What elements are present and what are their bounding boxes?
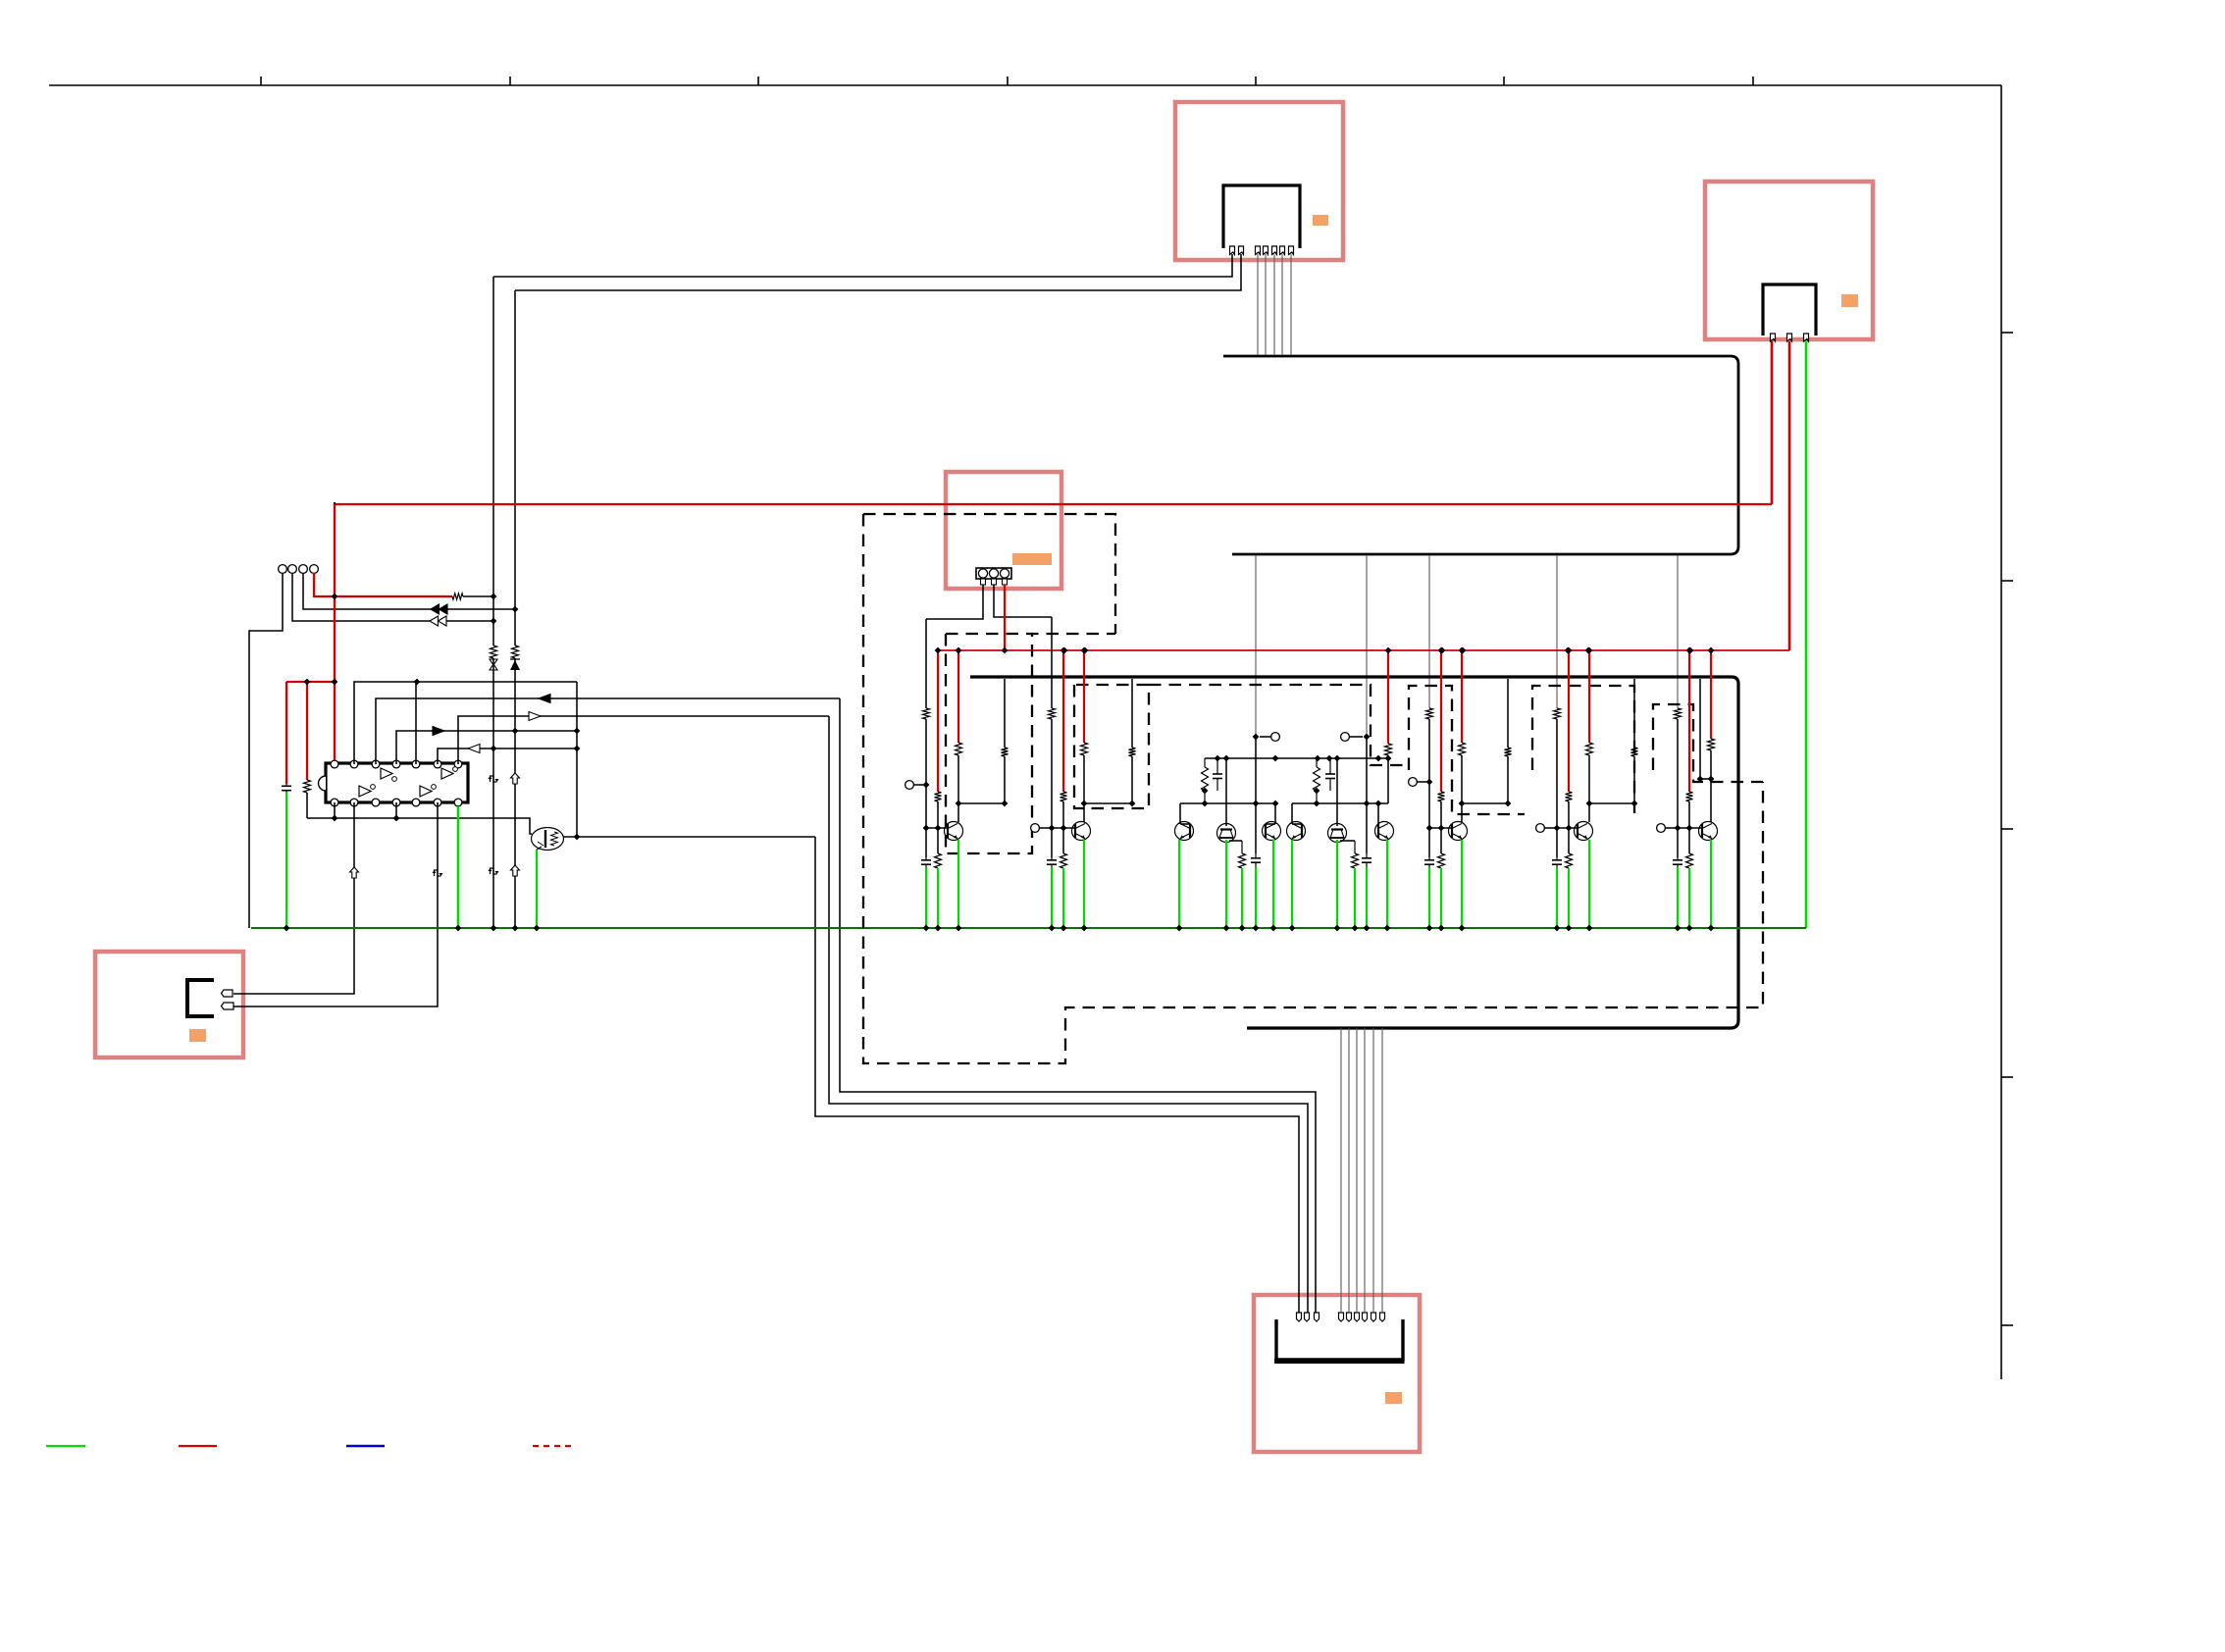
junction mid RC2 [1314,788,1320,795]
ground junction at 1202 [1176,925,1183,932]
resistor R5e [1505,748,1512,756]
junction ch6 node C [1631,800,1638,807]
FET Q12 [532,828,564,851]
legend dashed red wire [533,1445,574,1447]
junction at 525,621 [512,606,519,613]
mid lower stub right [1340,840,1355,842]
capacitor C-mid3 [1255,853,1257,858]
junction ch7 gnd A [1675,925,1682,932]
wire mid A down [1255,737,1257,853]
IC U1 bottom pin 8 [331,799,338,806]
terminal T1 [279,565,287,574]
ground junction at 1381 [1352,925,1359,932]
red wire ch2 B [1062,650,1064,792]
resistor R-mid4 [1239,853,1246,868]
green ground bus [251,927,1806,929]
red junction at 1619,663 [1585,647,1592,654]
ground junction at 292 [284,925,290,932]
red supply horizontal y514 [335,503,1772,505]
wire y712 to nested outer [840,698,1316,1313]
junction ch6 red B [1566,647,1573,654]
wire bus from J1 top edge [1223,356,1738,364]
wire ch7 D to node [1710,750,1712,779]
wire x313 to y834 [306,793,308,818]
wire y834 to FET [307,818,532,834]
connector J1 pin 5 [1272,246,1277,255]
wire ch1 D to node [957,755,959,803]
connector J5 housing [1276,1319,1403,1360]
ground junction at 525 [512,925,519,932]
junction ch5 gnd E [1459,925,1466,932]
IC U1 bottom pin 12 [412,799,420,806]
red drop x313 [306,682,308,780]
capacitor C1 [925,857,927,860]
wire x588 drop [576,682,578,837]
transistor Q6 [1287,822,1306,841]
junction ch1 gnd B [935,925,942,932]
junction mid red [1385,647,1392,654]
red wire ch2 D [1083,650,1085,743]
connector J5 pin 2 [1305,1313,1310,1321]
junction ch5 red B [1438,647,1445,654]
ground junction at 1414 [1384,925,1391,932]
wire Q6 base [1291,803,1293,824]
resistor R2a [1049,708,1056,719]
wire ch1 A mid [925,719,927,857]
collector node ch1 [958,802,1005,804]
resistor R-mid1 [1204,758,1206,767]
junction ch2 gnd A [1049,925,1056,932]
junction at 503,608 [491,594,497,600]
IC U1 bottom pin 14 [454,799,462,806]
wire J1 pin6 drop [1281,254,1283,355]
green Q4 emitter [1225,840,1227,928]
wire drop to ch5 [1428,555,1430,708]
ground junction at 1280 [1253,925,1260,932]
wire J1 pin2 route [515,254,1241,290]
capacitor C-292 [285,784,287,786]
wire T1 to ground bus [249,573,283,928]
terminal T2 [288,565,297,574]
wire ch6 A mid [1556,719,1558,857]
junction at 404,834 [393,815,400,822]
junction at 425,695 [414,679,421,686]
wire drop to ch6 [1556,555,1558,708]
terminal mid right [1341,733,1350,742]
resistor R5d [1459,743,1466,755]
mid lower stub left [1229,840,1242,842]
ground junction at 503 [491,925,497,932]
red wire ch7 D [1710,650,1712,739]
junction ch7 gnd B [1686,925,1693,932]
wire y730 to nested middle [829,716,1308,1313]
wire ch6 collector [1588,803,1590,822]
red junction at 1491,663 [1460,647,1467,654]
IC U1 top pin 1 [331,760,338,768]
wire J3 pin1 [926,585,983,619]
connector J5 pin 4 [1339,1313,1344,1321]
junction ch7 node D [1708,776,1715,783]
border top tick 3 [757,77,759,85]
junction ch5 term [1426,779,1433,786]
junction mid RC1 [1202,788,1209,795]
resistor R2d [1081,743,1088,755]
wire T2 signal [292,573,493,621]
wire ch5 terminal [1417,781,1429,783]
green wire ch5 emitter [1461,840,1463,928]
junction ch2 red B [1061,647,1067,654]
resistor R7a [1675,708,1682,719]
connector box J2 (top right) [1705,181,1873,339]
dashed box A y646 edge [946,633,1115,635]
border top ruler line [49,84,2001,86]
green wire ch1 B [937,868,939,928]
ground junction at 1298 [1270,925,1277,932]
red junction at 1024,663 [1002,647,1009,654]
wire J1 pin5 drop [1273,254,1275,355]
red wire ch5 D [1461,650,1463,743]
border top tick 1 [260,77,262,85]
junction ch6 base A [1554,825,1561,832]
red junction at 1744,663 [1708,647,1715,654]
transistor Q5 [1263,822,1281,841]
IC U1 top pin 2 [350,760,358,768]
junction ch2 base A [1049,825,1056,832]
IC U1 top pin 4 [392,760,400,768]
junction ch1 base A [923,825,930,832]
terminal ch1 [906,781,914,790]
wire ch2 B to base [1062,801,1064,828]
connector box J1 (top middle) [1175,102,1343,260]
wire ch1 base feed [925,619,927,708]
wire Q3 base [1179,803,1181,824]
resistor R5c [1438,853,1445,868]
up-arrow glyph on x361 [350,867,359,878]
resistor R-mid3 [1385,744,1392,755]
junction ch2 node D [1081,800,1088,807]
transistor Q4 [1217,824,1236,843]
IC U1 top pin 3 [372,760,380,768]
ground junction at 1393 [1364,925,1371,932]
wire bus from J1 bottom edge [1232,553,1731,556]
junction ch2 gnd E [1081,925,1088,932]
diode glyph on V503 [490,659,497,665]
green wire ch6 emitter [1588,840,1590,928]
connector J2 pin 3 [1804,334,1809,341]
red wire ch1 D [957,650,959,743]
transistor Q6 [1575,822,1593,841]
green mid R5 [1354,868,1356,928]
wire ch5 D to node [1461,755,1463,803]
resistor R-mid5 [1352,853,1359,868]
label J2 [1841,294,1858,307]
wire ch5 C to node [1507,756,1509,803]
red branch y695 [286,681,335,683]
IC U1 body [326,763,468,802]
green Q7 emitter [1336,840,1338,928]
transistor Q5 [1449,822,1468,841]
label J5 [1385,1392,1402,1404]
junction ch5 gnd A [1426,925,1433,932]
junction ch1 red B [935,647,942,654]
wire ch7 B lower [1688,828,1690,853]
wire ch1 C from bus [1004,679,1006,748]
green mid C3 [1255,867,1257,928]
wire ch6 D to node [1588,755,1590,803]
junction ch2 base B [1061,825,1067,832]
connector J3 housing [976,568,1011,579]
connector box J3 (middle) [946,472,1061,589]
red wire J2 pin2 [1788,341,1791,650]
mid node rail right y819 [1292,802,1388,804]
capacitor C-mid2 [1329,758,1331,774]
connector J2 pin 2 [1787,334,1792,341]
junction ch7 red D [1708,647,1715,654]
wire ch2 A mid [1051,719,1053,857]
border top tick 4 [1007,77,1009,85]
IC U1 bottom pin 9 [350,799,358,806]
red wire ch1 B [937,650,939,792]
wire U1 p7 y730 line [458,716,829,764]
junction ch1 gnd A [923,925,930,932]
connector J4 pin 1 [222,990,233,997]
terminal ch6 [1536,824,1545,833]
green Q3 emitter [1178,840,1180,928]
green wire ch7 A [1677,867,1679,928]
border top tick 5 [1255,77,1257,85]
mid node rail left y819 [1180,802,1275,804]
red wire J2 pin1 [1771,341,1774,504]
pulse glyph on V503 upper [491,776,494,782]
resistor R7d [1708,739,1715,750]
green mid C4 [1366,867,1368,928]
junction mid A feed [1253,734,1260,741]
terminal T3 [299,565,308,574]
collector node ch7 [1700,778,1711,780]
resistor R6e [1631,748,1638,756]
connector J5 pin 8 [1371,1313,1376,1321]
IC U1 bottom pin 10 [372,799,380,806]
wire mid red to rail [1387,755,1389,758]
dashed box A left-bottom [863,514,1763,1063]
red vertical x341 to IC pin1 [334,504,336,764]
wire ch5 collector [1461,803,1463,822]
resistor R-mid2 [1316,758,1318,767]
resistor R6d [1586,743,1593,755]
IC U1 top pin 7 [454,760,462,768]
resistor R-313 [304,780,311,793]
wire ch5 C from bus [1507,679,1509,748]
terminal ch5 [1409,778,1418,787]
junction at 341,608 [332,594,338,600]
connector J5 pin 1 [1297,1313,1302,1321]
transistor Q7 [1699,822,1718,841]
wire ch1 terminal [913,784,926,786]
mid top rail y773 [1205,757,1388,759]
transistor Q8 [1375,822,1394,841]
collector node ch5 [1462,802,1508,804]
resistor R-T4 [452,594,463,599]
IC U1 top pin 6 [434,760,441,768]
resistor R1b [935,792,942,801]
wire J1 pin7 drop [1290,254,1292,355]
green wire ch1 A [925,867,927,928]
IC U1 inverter 1 [381,768,392,779]
border top tick 2 [509,77,511,85]
terminal ch7 [1657,824,1666,833]
wire ch2 terminal [1039,827,1052,829]
junction ch1 node C [1002,800,1009,807]
green Q8 emitter [1386,840,1388,928]
green wire ch5 B [1440,868,1442,928]
wire drop to ch7 [1677,555,1679,708]
junctions on y819 [1202,800,1209,807]
junction ch1 gnd E [956,925,962,932]
wire J1 pin4 drop [1265,254,1267,355]
double hollow arrow on T2 wire [430,616,439,626]
green Q6 emitter [1291,840,1293,928]
resistor on V525 [512,645,519,658]
green mid R4 [1241,868,1243,928]
border right tick 3 [2001,828,2013,830]
resistor R5b [1438,792,1445,801]
wire ch5 B to base [1440,801,1442,828]
connector J5 pin 7 [1363,1313,1368,1321]
junction ch5 base B [1438,825,1445,832]
green wire ch6 B [1568,868,1570,928]
resistor R1d [956,743,962,755]
wire ch7 collector [1710,779,1712,822]
resistor R7b [1686,792,1693,801]
wire U1 p9 to J4 pin1 [233,802,354,994]
connector J1 pin 3 [1256,246,1261,255]
wire ch2 C to node [1131,756,1133,803]
wires bundle to J5 [1340,1028,1342,1313]
wire mid rail ends [1387,758,1389,803]
junction ch6 gnd A [1554,925,1561,932]
connector J1 pin 7 [1289,246,1294,255]
junction ch7 base B [1686,825,1693,832]
junctions on y773 [1215,755,1221,762]
junction ch5 node C [1505,800,1512,807]
wire ch2 C from bus [1131,679,1133,748]
wire J1 pin3 drop [1257,254,1259,355]
wire T4 red feed [314,573,452,596]
wire ch5 B lower [1440,828,1442,853]
connector J5 pin 6 [1355,1313,1360,1321]
connector J1 pin 4 [1264,246,1268,255]
connector J3 pin 1 [981,579,986,585]
transistor Q7 [1328,824,1347,843]
hollow right arrow on y730 [529,712,541,721]
capacitor C5 [1428,857,1430,860]
red junction at 1598,663 [1565,647,1572,654]
hollow left arrow on y763 [468,745,480,753]
wire U1 p11 drop [395,802,397,818]
junction at 525,745 [512,728,519,735]
up-arrow glyph on V525 upper [511,773,520,784]
resistor R5a [1426,708,1433,719]
red wire ch6 B [1568,650,1570,792]
transistor Q3 [1175,822,1194,841]
green wire ch2 emitter [1083,840,1085,928]
wire ch6 C to node [1633,756,1635,803]
thick black bus y690 [970,677,1738,1028]
green FET emitter [536,850,538,928]
junction ch2 node C [1129,800,1136,807]
IC U1 inverter 2 [441,768,453,779]
ground junction at 1317 [1289,925,1296,932]
base row ch5 [1429,827,1452,829]
legend red wire [179,1445,217,1447]
border right tick 1 [2001,332,2013,334]
pulse glyph on V503 lower [491,868,494,874]
border right tick 4 [2001,1076,2013,1078]
red junction at 1085,663 [1061,647,1068,654]
junction ch6 gnd B [1566,925,1573,932]
label J4 [189,1029,206,1042]
IC U1 bottom pin 13 [434,799,441,806]
diode on V525 [510,660,520,670]
connector J5 pin 9 [1380,1313,1385,1321]
wire ch7 A mid [1677,719,1679,857]
junction ch1 red D [956,647,962,654]
terminal ch2 [1031,824,1040,833]
dashed box mid [1149,685,1409,765]
dashed box R1 [946,634,1032,853]
resistor R1c [935,853,942,868]
junction ch6 gnd E [1586,925,1593,932]
wire ch2 B lower [1062,828,1064,853]
junction ch5 gnd B [1438,925,1445,932]
wire ch7 C from bus [1699,679,1701,779]
resistor R2e [1129,748,1136,756]
connector box J5 (bottom) [1254,1295,1420,1452]
IC U1 top pin 5 [412,760,420,768]
IC U1 inverter 3 [359,786,371,797]
junction at 588,745 [574,728,581,735]
resistor R1a [923,708,930,719]
wire J1 pin1 route [493,254,1232,277]
junction ch7 gnd E [1708,925,1715,932]
junction ch5 red D [1459,647,1466,654]
junction at 313,695 [304,679,311,686]
green wire ch2 B [1062,868,1064,928]
base row ch7 [1678,827,1702,829]
junction at 341,834 [332,815,338,822]
wire ch6 terminal [1544,827,1557,829]
red feed mid [1387,650,1389,744]
ground junction at 1250 [1223,925,1230,932]
wire ch7 terminal [1665,827,1678,829]
wire ch2 collector [1083,803,1085,822]
wire ch1 B lower [937,828,939,853]
junction mid B feed [1364,734,1371,741]
terminal T4 [310,565,319,574]
red wire ch7 B [1688,650,1690,792]
wire ch1 collector [957,803,959,822]
junction ch1 term [923,782,930,789]
resistor R1e [1002,748,1009,756]
resistor R2b [1061,792,1067,801]
junction at 503,633 [491,618,497,625]
transistor Q1 [945,822,963,841]
junction at 503,763 [491,746,497,752]
wire T4 resistor to V503 [463,595,493,597]
connector J2 pin 1 [1771,334,1776,341]
wire ch5 A mid [1428,719,1430,857]
wire ch1 C to node [1004,756,1006,803]
